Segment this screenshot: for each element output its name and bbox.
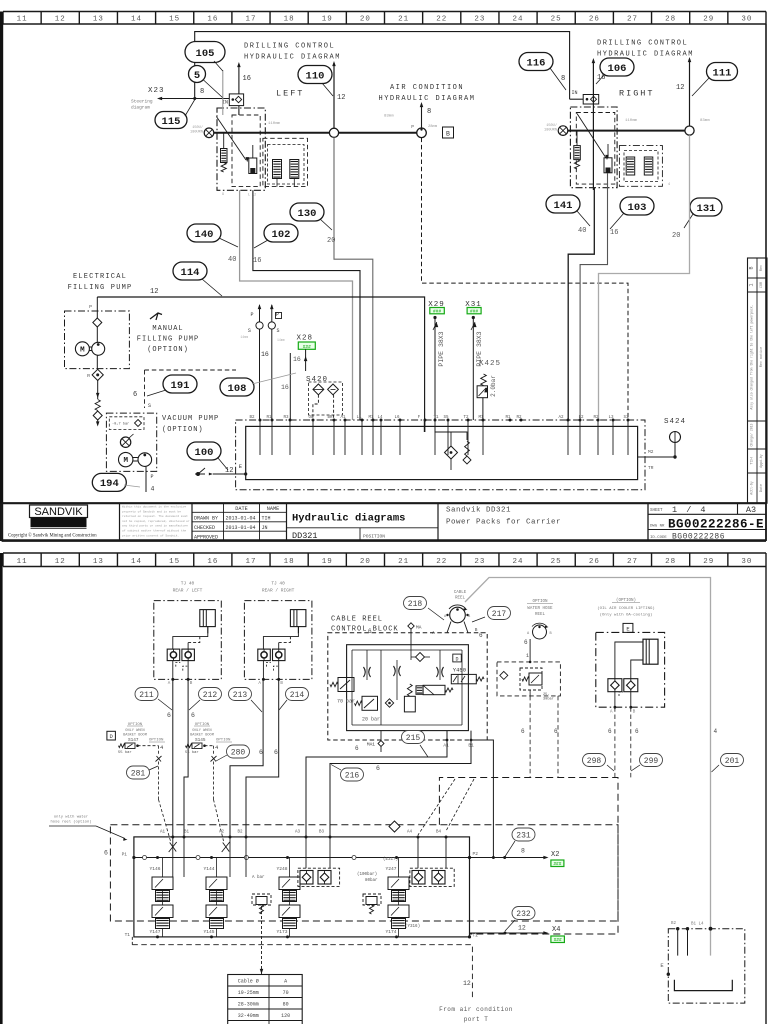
balloon 111: [707, 63, 738, 81]
wire to X2: [470, 857, 547, 859]
svg-text:BASKET BOOM: BASKET BOOM: [123, 734, 147, 738]
svg-text:Cable Ø: Cable Ø: [238, 978, 259, 985]
svg-text:A4: A4: [407, 831, 413, 835]
svg-text:28: 28: [665, 558, 676, 566]
svg-text:11: 11: [17, 15, 28, 23]
svg-text:26: 26: [589, 15, 600, 23]
svg-text:Rev notice: Rev notice: [759, 347, 764, 367]
balloon 102: [264, 224, 298, 242]
svg-text:80: 80: [283, 1002, 289, 1008]
diamond on top edge: [389, 821, 400, 832]
balloon 211: [135, 688, 158, 701]
balloon 141: [546, 195, 580, 213]
svg-text:Y146: Y146: [150, 866, 161, 872]
pump circle: [92, 342, 105, 355]
svg-text:17: 17: [245, 15, 256, 23]
svg-text:201: 201: [725, 757, 740, 766]
dashed enclosure right step: [439, 778, 618, 935]
wire AC arrow up: [421, 104, 423, 128]
balloon 103: [620, 197, 654, 215]
wire 8-line across top: [195, 32, 570, 99]
svg-text:29: 29: [703, 15, 714, 23]
svg-text:12: 12: [676, 84, 684, 92]
wire IN to block: [238, 106, 240, 115]
svg-text:Y147: Y147: [150, 929, 161, 935]
svg-text:6: 6: [608, 728, 612, 735]
svg-text:110: 110: [306, 70, 325, 82]
svg-text:40: 40: [228, 256, 236, 264]
balloon 108: [220, 378, 254, 396]
svg-text:16: 16: [207, 558, 218, 566]
svg-text:8: 8: [521, 848, 525, 855]
svg-text:20 bar: 20 bar: [362, 717, 380, 723]
svg-text:VACUUM PUMP: VACUUM PUMP: [162, 415, 219, 423]
spring + diamond drain: [95, 400, 100, 411]
svg-text:CONTROL BLOCK: CONTROL BLOCK: [331, 626, 399, 634]
svg-text:DRAWN BY: DRAWN BY: [194, 516, 218, 522]
pilot solenoid valve: [423, 685, 445, 694]
wire 8 into right IN: [569, 95, 571, 99]
svg-text:6: 6: [635, 728, 639, 735]
svg-text:212: 212: [203, 691, 218, 700]
svg-text:ONLY WHEN: ONLY WHEN: [192, 729, 211, 733]
svg-text:Steering: Steering: [131, 99, 153, 105]
svg-text:A bar: A bar: [252, 875, 265, 880]
water reel relief dashed box: [497, 662, 560, 696]
hand valve at E: [195, 473, 205, 475]
right block right dashed box: [619, 146, 662, 187]
svg-text:150U/: 150U/: [192, 125, 203, 130]
vacuum pump dash-dot box: [106, 413, 156, 471]
svg-text:###: ###: [554, 937, 562, 943]
wires S420 to ports: [313, 395, 319, 420]
svg-text:Assy also changed from the rig: Assy also changed from the right to the …: [750, 304, 754, 409]
svg-text:B2: B2: [249, 416, 255, 420]
wire 20-line grey right: [599, 135, 690, 420]
vacuum motor: [119, 452, 133, 466]
valve station Y144/Y145: [204, 858, 228, 937]
svg-text:102: 102: [272, 229, 291, 241]
svg-text:298: 298: [587, 757, 602, 766]
svg-text:213: 213: [233, 691, 248, 700]
svg-text:114: 114: [181, 267, 200, 279]
svg-text:1 / 4: 1 / 4: [672, 505, 708, 515]
P rail: [134, 857, 470, 859]
tank U symbol: [674, 980, 732, 991]
svg-text:B: B: [446, 131, 450, 138]
svg-text:27: 27: [627, 15, 638, 23]
svg-text:12: 12: [55, 15, 66, 23]
dashed diagonals to A4/B4: [418, 779, 455, 835]
balloon 280: [227, 745, 250, 758]
drawn/checked/approved table: [192, 503, 287, 540]
svg-text:TIH: TIH: [262, 516, 271, 522]
check diamond with dot: [385, 699, 393, 707]
svg-text:PIPE 38X3: PIPE 38X3: [438, 331, 445, 366]
pump swash arrow right: [577, 114, 606, 159]
filter/valve right block: [604, 158, 612, 173]
manifold outer dashed box: [110, 825, 618, 921]
svg-text:DWG NR: DWG NR: [650, 525, 665, 529]
svg-text:17: 17: [245, 558, 256, 566]
svg-text:13: 13: [93, 15, 104, 23]
IN box right: [583, 95, 599, 105]
svg-text:MA1: MA1: [367, 742, 375, 748]
svg-text:P: P: [411, 124, 414, 130]
page 2 right border: [765, 567, 767, 1024]
svg-text:B3: B3: [319, 831, 325, 835]
svg-text:OPTION: OPTION: [195, 723, 210, 727]
svg-text:TJ 40: TJ 40: [271, 581, 285, 587]
svg-text:MA: MA: [416, 625, 422, 631]
stub lines into tank: [260, 420, 628, 455]
left block inner dashed box: [232, 115, 260, 187]
svg-text:6: 6: [167, 712, 171, 719]
wire 110 arrow up: [333, 63, 335, 133]
gauge left pump: [204, 128, 214, 138]
svg-text:Copyright © Sandvik Mining and: Copyright © Sandvik Mining and Construct…: [8, 533, 97, 539]
sheet / dwg nr block: [647, 503, 649, 540]
svg-text:11: 11: [17, 558, 28, 566]
svg-text:(Only with OA-cooling): (Only with OA-cooling): [600, 613, 653, 618]
svg-text:40: 40: [578, 227, 586, 235]
svg-text:REAR / LEFT: REAR / LEFT: [173, 588, 203, 594]
TJ 40 LEFT box: [154, 581, 222, 687]
svg-text:(Y316): (Y316): [405, 924, 420, 929]
svg-text:6: 6: [521, 728, 525, 735]
svg-text:X28: X28: [297, 335, 314, 343]
TJ right drop wires: [230, 679, 263, 837]
svg-text:4: 4: [668, 183, 670, 187]
svg-text:110mm: 110mm: [268, 122, 281, 126]
svg-text:DD321: DD321: [292, 531, 318, 541]
svg-text:A2: A2: [558, 416, 564, 420]
boxed node D in block: [453, 654, 462, 662]
svg-text:X2: X2: [551, 851, 559, 859]
balloon 201: [721, 754, 744, 767]
svg-text:21: 21: [398, 558, 409, 566]
svg-text:20: 20: [360, 15, 371, 23]
svg-text:32-40mm: 32-40mm: [238, 1013, 259, 1019]
svg-text:191: 191: [171, 380, 190, 392]
relief valve left block: [221, 149, 228, 163]
flow restrictor X symbols: [364, 667, 371, 677]
svg-text:T1: T1: [125, 932, 131, 938]
wire 16 right block vertical: [592, 60, 594, 190]
svg-text:R: R: [87, 373, 90, 379]
svg-text:130: 130: [298, 208, 317, 220]
svg-text:24: 24: [513, 15, 524, 23]
electrical pump unit dash-dot box: [65, 311, 130, 369]
svg-text:299: 299: [644, 757, 659, 766]
svg-text:HYDRAULIC DIAGRAM: HYDRAULIC DIAGRAM: [597, 51, 694, 59]
dashed drain line below manifold: [132, 945, 472, 1000]
svg-text:A2: A2: [219, 831, 225, 835]
balloon 116: [519, 53, 553, 71]
solenoid pair in sub-box: [273, 160, 282, 179]
svg-text:Y145: Y145: [204, 929, 215, 935]
svg-text:70: 70: [283, 990, 289, 996]
balloon 218: [404, 597, 427, 610]
svg-text:A1: A1: [443, 743, 449, 749]
balloon 105: [185, 42, 225, 63]
svg-text:A1: A1: [160, 831, 166, 835]
svg-text:25: 25: [551, 15, 562, 23]
left block right dashed box: [263, 138, 308, 186]
boxed node D left: [107, 731, 116, 740]
svg-text:SANDVIK: SANDVIK: [34, 506, 83, 518]
dashed pilot to X mark station1: [159, 800, 171, 842]
cooler dashed drops: [614, 707, 616, 777]
balloon 140: [187, 224, 221, 242]
svg-text:6: 6: [376, 765, 380, 772]
svg-text:28-30mm: 28-30mm: [238, 1002, 259, 1008]
svg-text:83mm: 83mm: [384, 115, 394, 119]
gauge right pump: [558, 126, 568, 136]
boxed node B: [443, 127, 454, 138]
svg-text:A: A: [284, 979, 287, 985]
svg-text:150U/: 150U/: [546, 123, 557, 128]
work feed lines into stations: [172, 837, 174, 877]
junction circle right: [685, 126, 694, 135]
svg-text:217: 217: [492, 610, 507, 619]
junction circle left: [329, 128, 338, 137]
svg-text:S420: S420: [306, 376, 328, 384]
balloon 110: [298, 66, 332, 84]
svg-text:22: 22: [436, 15, 447, 23]
page 2 left border bar: [0, 553, 3, 1024]
svg-text:B2: B2: [237, 831, 243, 835]
svg-text:P2: P2: [473, 851, 479, 857]
motor M: [75, 342, 89, 356]
title block: [2, 503, 766, 541]
svg-text:70 bar: 70 bar: [337, 699, 355, 705]
cable diameter table: [228, 975, 303, 1024]
revision table right edge: [748, 258, 768, 503]
svg-text:110mm: 110mm: [625, 119, 638, 123]
svg-text:21: 21: [398, 15, 409, 23]
X break marks at station 1/2 inlets: [169, 842, 177, 852]
balloon 131: [690, 198, 722, 216]
svg-text:Y174: Y174: [386, 929, 397, 935]
svg-text:DATE: DATE: [235, 506, 247, 512]
tank box: [246, 426, 638, 479]
80bar reducer: [363, 894, 381, 905]
balloon 216: [341, 768, 364, 781]
wire 40-line right block: [568, 188, 594, 420]
svg-text:108: 108: [228, 383, 247, 395]
balloon 281: [127, 766, 150, 779]
water hose reel option: [524, 600, 553, 663]
right block inner dashed box: [576, 113, 615, 185]
svg-text:13: 13: [93, 558, 104, 566]
dashed drop to cable table: [261, 906, 263, 975]
svg-text:any third party or used in man: any third party or used in manufacture: [122, 524, 188, 528]
option pressure switch S145: [185, 723, 232, 800]
svg-text:COR: COR: [760, 282, 764, 288]
svg-text:6: 6: [355, 745, 359, 752]
svg-text:22: 22: [436, 558, 447, 566]
wire 16 up from IN: [238, 64, 240, 94]
svg-text:12: 12: [55, 558, 66, 566]
balloon 232: [512, 907, 535, 920]
suction diamond below: [92, 369, 103, 380]
svg-text:CABLE REEL: CABLE REEL: [331, 616, 383, 624]
svg-text:214: 214: [290, 691, 305, 700]
small box right of P: [276, 313, 282, 319]
vacuum gauge: [120, 437, 130, 447]
svg-text:111: 111: [713, 67, 732, 79]
svg-text:14: 14: [131, 558, 142, 566]
svg-text:S424: S424: [664, 418, 686, 426]
svg-text:X23: X23: [148, 87, 165, 95]
balloon 130: [290, 203, 324, 221]
svg-text:ONLY WHEN: ONLY WHEN: [125, 729, 144, 733]
column header row: [3, 12, 766, 25]
svg-text:232: 232: [516, 910, 531, 919]
wire 16-line from left block: [253, 190, 360, 420]
svg-text:25: 25: [551, 558, 562, 566]
svg-text:BR: BR: [327, 416, 333, 420]
relief valve right block: [574, 146, 581, 160]
svg-text:106: 106: [608, 63, 627, 75]
svg-text:14: 14: [131, 15, 142, 23]
svg-text:29: 29: [703, 558, 714, 566]
svg-text:A3: A3: [295, 831, 301, 835]
svg-text:16: 16: [610, 229, 618, 237]
svg-text:REEL: REEL: [455, 597, 466, 601]
counterbalance vertical spring box: [404, 696, 415, 712]
svg-text:24: 24: [513, 558, 524, 566]
svg-text:15: 15: [169, 15, 180, 23]
svg-text:B4: B4: [436, 831, 442, 835]
svg-text:TR: TR: [648, 465, 654, 471]
left pump valve block: dash-dot enclosure: [217, 108, 265, 190]
svg-text:-0,7 bar: -0,7 bar: [112, 422, 129, 427]
svg-text:REEL: REEL: [535, 613, 546, 617]
svg-text:M: M: [123, 457, 128, 465]
svg-text:55 bar: 55 bar: [185, 750, 199, 755]
svg-text:20: 20: [360, 558, 371, 566]
svg-text:OPTION: OPTION: [128, 723, 143, 727]
svg-text:80bar: 80bar: [365, 878, 378, 883]
svg-text:(OPTION): (OPTION): [162, 426, 204, 434]
MA port: [408, 623, 414, 629]
svg-text:30bar: 30bar: [543, 697, 554, 702]
right pump valve block: dash-dot enclosure: [570, 107, 617, 188]
balloon 100: [187, 442, 221, 460]
junction dots on inner box top: [171, 836, 174, 839]
wire X23 line: [159, 98, 229, 100]
return filter in tank: [435, 426, 467, 440]
svg-text:4: 4: [151, 486, 155, 493]
svg-text:30: 30: [741, 558, 752, 566]
manual filling pump lever icon: [150, 313, 162, 319]
valve station Y248/Y173: [277, 858, 301, 937]
svg-text:16: 16: [253, 257, 261, 265]
svg-text:R3: R3: [283, 416, 289, 420]
balloon 215: [402, 731, 425, 744]
svg-text:M2: M2: [648, 449, 654, 455]
svg-text:S: S: [277, 328, 280, 334]
svg-text:returned on request. The docum: returned on request. The document must: [122, 514, 188, 518]
svg-text:280: 280: [231, 748, 246, 757]
svg-text:141: 141: [554, 200, 573, 212]
svg-text:###: ###: [470, 308, 478, 314]
svg-text:BASKET BOOM: BASKET BOOM: [190, 734, 214, 738]
svg-text:18: 18: [284, 558, 295, 566]
wire dashed to vacuum: [144, 370, 146, 408]
svg-text:TIH: TIH: [751, 457, 755, 465]
svg-text:REAR / RIGHT: REAR / RIGHT: [262, 588, 295, 594]
svg-text:Actl-by: Actl-by: [750, 481, 754, 494]
svg-text:27: 27: [627, 558, 638, 566]
svg-text:2013-01-04: 2013-01-04: [226, 516, 256, 522]
filter diamond: [416, 653, 425, 662]
svg-text:103: 103: [628, 202, 647, 214]
svg-text:BG00222286-E: BG00222286-E: [668, 517, 764, 531]
manifold inner solid box: [134, 837, 470, 937]
svg-text:CHECKED: CHECKED: [194, 525, 215, 531]
svg-text:19: 19: [322, 15, 333, 23]
svg-text:D: D: [455, 656, 458, 662]
wire to X4: [470, 932, 547, 934]
column header row: [3, 553, 766, 567]
svg-text:P1: P1: [122, 852, 128, 858]
svg-text:16: 16: [207, 15, 218, 23]
svg-text:Hydraulic diagrams: Hydraulic diagrams: [292, 513, 405, 525]
svg-text:18: 18: [284, 15, 295, 23]
svg-text:BG00222286: BG00222286: [672, 532, 725, 541]
svg-text:28: 28: [665, 15, 676, 23]
svg-text:S: S: [148, 403, 151, 409]
svg-text:12: 12: [337, 94, 345, 102]
svg-text:B: B: [749, 266, 755, 269]
oil air cooler lifting option: [596, 598, 665, 715]
svg-text:6: 6: [104, 850, 108, 857]
page 1 left border bar: [0, 12, 3, 542]
wire A1 to A3: [306, 731, 447, 837]
cable reel control block dashed box: [328, 633, 487, 740]
balloon 5: [189, 66, 206, 83]
svg-text:FILLING PUMP: FILLING PUMP: [137, 336, 199, 344]
svg-text:6: 6: [524, 639, 528, 646]
svg-text:231: 231: [516, 831, 531, 840]
relief valve 20 bar: [362, 696, 378, 710]
check diamond: [93, 318, 102, 327]
svg-text:Y173: Y173: [277, 929, 288, 935]
svg-text:JN: JN: [262, 525, 268, 531]
balloon 299: [640, 754, 663, 767]
svg-text:28mm: 28mm: [428, 125, 438, 129]
control block inner solid box: [347, 645, 469, 731]
svg-text:6: 6: [259, 749, 263, 756]
junction dots manifold: [132, 856, 471, 939]
svg-text:FILLING PUMP: FILLING PUMP: [68, 284, 133, 292]
option pressure switch S147: [118, 723, 165, 800]
svg-text:ELECTRICAL: ELECTRICAL: [73, 273, 127, 281]
svg-text:16: 16: [281, 384, 289, 391]
svg-text:(OIL AIR COOLER LIFTING): (OIL AIR COOLER LIFTING): [597, 606, 655, 611]
dashed pilot curl: [619, 692, 623, 696]
svg-text:P: P: [250, 312, 253, 318]
svg-text:HYDRAULIC DIAGRAM: HYDRAULIC DIAGRAM: [379, 95, 476, 103]
svg-text:14mm: 14mm: [277, 338, 285, 342]
vacuum pump circle: [138, 453, 152, 467]
svg-text:port T: port T: [464, 1016, 489, 1023]
svg-text:###: ###: [433, 308, 441, 314]
svg-text:Date: Date: [760, 484, 764, 492]
